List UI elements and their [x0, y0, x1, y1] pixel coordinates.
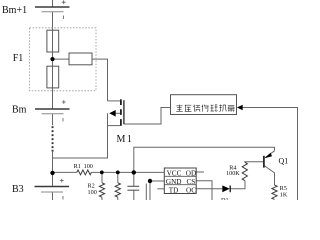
svg-text:F1: F1	[13, 53, 24, 64]
svg-text:Bm+1: Bm+1	[2, 5, 27, 16]
svg-text:CS: CS	[187, 178, 196, 186]
svg-text:B3: B3	[12, 184, 24, 195]
svg-text:TD: TD	[169, 186, 179, 194]
svg-text:1K: 1K	[280, 191, 288, 198]
svg-text:Bm: Bm	[12, 105, 27, 116]
svg-text:R1: R1	[74, 163, 81, 170]
svg-text:M1: M1	[117, 134, 134, 145]
svg-text:Q1: Q1	[279, 157, 289, 166]
svg-text:GND: GND	[166, 178, 182, 186]
svg-text:100: 100	[88, 189, 97, 196]
svg-text:100K: 100K	[226, 170, 240, 177]
svg-text:VCC: VCC	[167, 170, 182, 178]
svg-text:100: 100	[84, 163, 93, 170]
svg-text:D1: D1	[221, 197, 229, 200]
svg-text:OD: OD	[186, 170, 196, 178]
svg-text:OC: OC	[186, 186, 196, 194]
